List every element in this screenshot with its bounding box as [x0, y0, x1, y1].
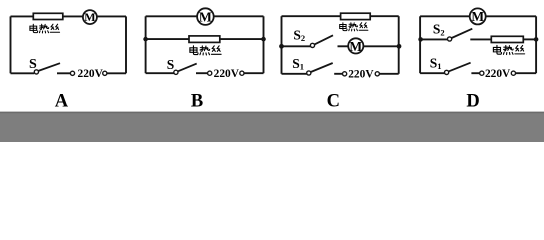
svg-text:M: M — [84, 10, 95, 24]
label 电热丝 circuit C — [340, 23, 368, 31]
wire: A left vertical — [10, 16, 12, 73]
label D — [466, 92, 479, 112]
wire: B left vertical — [145, 16, 147, 73]
svg-text:220V: 220V — [214, 68, 240, 80]
label S circuit B — [167, 57, 175, 72]
wire: A bottom right segment — [107, 72, 126, 74]
label 220V circuit D — [485, 68, 511, 80]
wire: C middle right segment — [363, 45, 398, 47]
switch S1 circuit C — [307, 63, 333, 75]
wire: B bottom right segment — [244, 72, 264, 74]
wire: D top right segment — [486, 15, 536, 17]
switch S2 circuit C — [310, 35, 333, 47]
svg-text:S: S — [167, 57, 175, 72]
wire: D right vertical — [535, 16, 537, 73]
svg-text:B: B — [191, 92, 203, 112]
wire: C bottom left segment — [282, 73, 307, 75]
motor M circuit B — [197, 8, 214, 25]
wire: C right vertical — [398, 16, 400, 74]
wire: C bottom segment before source — [334, 73, 342, 75]
label A — [55, 92, 69, 112]
label B — [191, 92, 203, 112]
wire: A right vertical — [125, 16, 127, 73]
wire: D bottom segment before source — [471, 72, 479, 74]
wire: C bottom right segment — [379, 73, 398, 75]
wire: C middle segment before motor — [338, 45, 349, 47]
switch S2 circuit D — [448, 29, 473, 41]
junction: B middle-right node — [261, 37, 266, 42]
svg-text:220V: 220V — [348, 68, 374, 80]
svg-text:M: M — [349, 39, 362, 54]
label 电热丝 circuit B — [190, 46, 221, 55]
junction: B middle-left node — [143, 37, 148, 42]
voltage source 220V circuit C (terminals) — [343, 72, 380, 76]
label 电热丝 circuit D — [493, 45, 524, 54]
junction: D middle-left node — [418, 37, 423, 42]
label S circuit A — [29, 57, 37, 72]
wire: B right vertical — [263, 16, 265, 73]
svg-text:220V: 220V — [485, 68, 511, 80]
wire: B middle left segment — [146, 38, 189, 40]
wire: B top right segment — [214, 15, 264, 17]
junction: D middle-right node — [534, 37, 539, 42]
junction: C middle-right node — [397, 44, 402, 49]
label S1 circuit D — [430, 56, 442, 72]
label S2 circuit D — [433, 22, 445, 38]
svg-text:D: D — [466, 92, 479, 112]
label 电热丝 circuit A — [30, 24, 60, 33]
wire: B top left segment — [146, 15, 198, 17]
motor M circuit C — [348, 38, 363, 53]
wire: A top middle segment — [63, 15, 83, 17]
resistor R1 (heating wire) circuit D — [491, 36, 523, 42]
svg-text:S1: S1 — [292, 56, 304, 72]
svg-text:A: A — [55, 92, 69, 112]
svg-text:220V: 220V — [78, 68, 104, 80]
wire: A top left segment — [11, 15, 34, 17]
wire: D top left segment — [420, 15, 470, 17]
wire: B bottom left segment — [146, 72, 174, 74]
wire: A top right segment — [97, 15, 126, 17]
wire: D middle right segment — [523, 38, 536, 40]
svg-text:S2: S2 — [433, 22, 445, 38]
svg-text:S2: S2 — [293, 28, 305, 44]
label S2 circuit C — [293, 28, 305, 44]
switch S circuit A — [34, 63, 60, 74]
wire: C top left segment — [282, 15, 341, 17]
label C — [327, 92, 340, 112]
motor M circuit D — [470, 8, 486, 24]
junction: C middle-left node — [279, 44, 284, 49]
wire: B bottom segment before source — [196, 72, 208, 74]
voltage source 220V circuit A (terminals) — [70, 71, 107, 75]
wire: D middle left segment — [420, 38, 448, 40]
voltage source 220V circuit D (terminals) — [480, 71, 516, 75]
wire: A bottom left segment — [11, 72, 35, 74]
resistor R1 (heating wire) circuit A — [33, 13, 63, 19]
svg-text:S1: S1 — [430, 56, 442, 72]
svg-text:C: C — [327, 92, 340, 112]
switch S1 circuit D — [445, 63, 471, 75]
motor M circuit A — [83, 10, 97, 24]
switch S circuit B — [174, 64, 197, 75]
wire: D middle segment before resistor — [470, 38, 491, 40]
resistor R1 (heating wire) circuit B — [189, 36, 220, 43]
wire: D left vertical — [419, 16, 421, 73]
wire: D bottom left segment — [420, 72, 444, 74]
label S1 circuit C — [292, 56, 304, 72]
resistor R1 (heating wire) circuit C — [341, 13, 371, 19]
svg-text:M: M — [199, 9, 212, 24]
wire: C left vertical — [281, 16, 283, 74]
svg-text:M: M — [471, 9, 484, 24]
svg-text:S: S — [29, 57, 37, 72]
wire: C top right segment — [370, 15, 399, 17]
wire: A bottom segment before source — [57, 72, 70, 74]
wire: B middle right segment — [220, 38, 264, 40]
label 220V circuit A — [78, 68, 104, 80]
label 220V circuit C — [348, 68, 374, 80]
voltage source 220V circuit B (terminals) — [208, 71, 244, 75]
label 220V circuit B — [214, 68, 240, 80]
wire: C middle left segment — [282, 45, 311, 47]
wire: D bottom right segment — [516, 72, 537, 74]
